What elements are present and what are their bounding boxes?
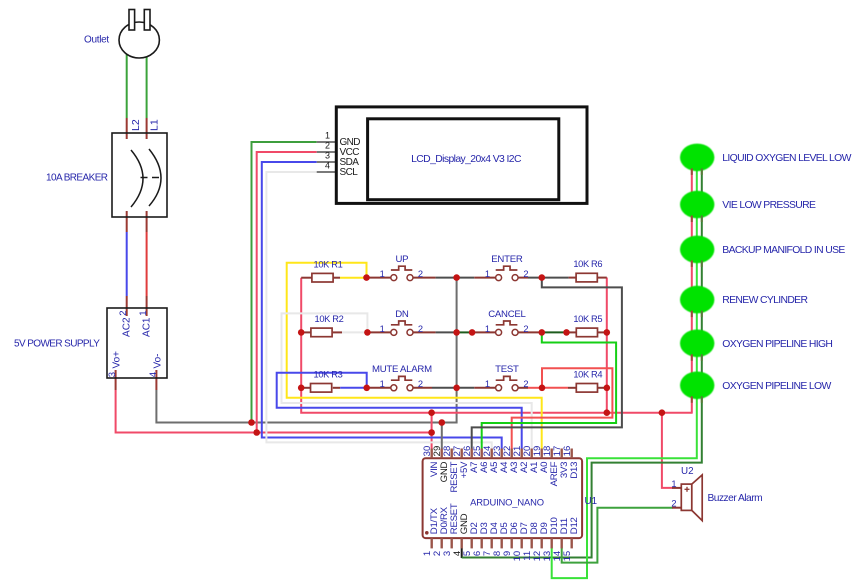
svg-text:VIE LOW PRESSURE: VIE LOW PRESSURE — [722, 200, 816, 211]
svg-text:10K R5: 10K R5 — [573, 314, 602, 324]
svg-text:1: 1 — [138, 311, 149, 316]
svg-text:10K R2: 10K R2 — [315, 314, 344, 324]
svg-text:3: 3 — [107, 372, 118, 377]
svg-text:2: 2 — [325, 141, 330, 151]
svg-text:1: 1 — [380, 324, 385, 334]
svg-text:1: 1 — [380, 379, 385, 389]
svg-text:RENEW CYLINDER: RENEW CYLINDER — [722, 295, 808, 306]
svg-text:10K R4: 10K R4 — [573, 369, 602, 379]
svg-text:BACKUP MANIFOLD IN USE: BACKUP MANIFOLD IN USE — [722, 245, 845, 256]
svg-text:2: 2 — [418, 269, 423, 279]
svg-text:MUTE ALARM: MUTE ALARM — [372, 364, 432, 375]
svg-text:L1: L1 — [149, 119, 161, 131]
svg-text:CANCEL: CANCEL — [488, 309, 526, 320]
svg-text:UP: UP — [395, 254, 408, 265]
svg-text:10A BREAKER: 10A BREAKER — [46, 173, 108, 184]
svg-text:D12: D12 — [569, 517, 580, 534]
svg-text:TEST: TEST — [495, 364, 519, 375]
svg-text:1: 1 — [325, 131, 330, 141]
svg-text:Buzzer Alarm: Buzzer Alarm — [708, 493, 763, 504]
svg-text:1: 1 — [485, 269, 490, 279]
svg-text:2: 2 — [418, 379, 423, 389]
svg-text:2: 2 — [118, 311, 129, 316]
svg-text:15: 15 — [562, 551, 573, 562]
svg-text:4: 4 — [325, 161, 330, 171]
svg-text:Vo+: Vo+ — [112, 351, 123, 369]
svg-text:L2: L2 — [130, 119, 142, 131]
svg-text:U1: U1 — [585, 496, 598, 507]
svg-text:10K R3: 10K R3 — [314, 369, 343, 379]
svg-text:2: 2 — [671, 499, 676, 509]
svg-text:OXYGEN PIPELINE HIGH: OXYGEN PIPELINE HIGH — [722, 339, 832, 350]
svg-text:4: 4 — [148, 372, 159, 377]
svg-text:AC1: AC1 — [141, 317, 152, 337]
svg-text:16: 16 — [562, 446, 573, 457]
svg-text:10K R1: 10K R1 — [314, 259, 343, 269]
svg-text:2: 2 — [523, 379, 528, 389]
svg-text:ARDUINO_NANO: ARDUINO_NANO — [470, 497, 544, 508]
svg-text:LIQUID OXYGEN LEVEL LOW: LIQUID OXYGEN LEVEL LOW — [722, 153, 851, 164]
svg-text:3: 3 — [325, 151, 330, 161]
svg-text:2: 2 — [418, 324, 423, 334]
svg-text:1: 1 — [671, 479, 676, 489]
svg-text:ENTER: ENTER — [491, 254, 523, 265]
svg-text:Vo-: Vo- — [152, 353, 163, 368]
svg-text:10K R6: 10K R6 — [573, 259, 602, 269]
svg-text:OXYGEN PIPELINE LOW: OXYGEN PIPELINE LOW — [722, 381, 831, 392]
svg-text:1: 1 — [485, 324, 490, 334]
svg-text:U2: U2 — [681, 466, 694, 477]
svg-text:2: 2 — [523, 324, 528, 334]
svg-text:Outlet: Outlet — [84, 35, 109, 46]
svg-text:SCL: SCL — [340, 167, 359, 178]
svg-text:AC2: AC2 — [122, 317, 133, 337]
svg-text:2: 2 — [523, 269, 528, 279]
svg-text:DN: DN — [395, 309, 409, 320]
svg-text:1: 1 — [485, 379, 490, 389]
svg-text:1: 1 — [380, 269, 385, 279]
svg-text:D13: D13 — [569, 462, 580, 479]
svg-text:5V POWER SUPPLY: 5V POWER SUPPLY — [14, 339, 100, 350]
svg-text:LCD_Display_20x4 V3 I2C: LCD_Display_20x4 V3 I2C — [411, 154, 522, 165]
